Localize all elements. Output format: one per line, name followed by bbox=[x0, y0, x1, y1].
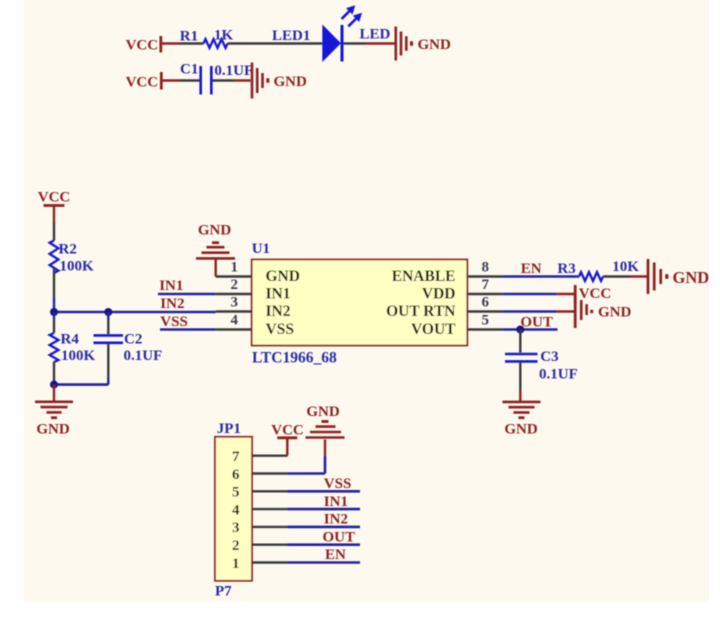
pin 1 (GND) stub bbox=[216, 275, 252, 277]
power port VCC (JP1) bbox=[271, 423, 304, 439]
svg-text:VCC: VCC bbox=[126, 75, 159, 91]
svg-text:U1: U1 bbox=[252, 241, 270, 257]
svg-text:GND: GND bbox=[306, 404, 340, 420]
svg-text:4: 4 bbox=[232, 502, 240, 518]
svg-text:R4: R4 bbox=[61, 332, 80, 348]
pin 8 (ENABLE) stub bbox=[467, 275, 502, 277]
svg-text:GND: GND bbox=[598, 305, 632, 321]
svg-text:2: 2 bbox=[231, 277, 239, 293]
junction (divider node) bbox=[50, 308, 58, 316]
resistor R2 bbox=[50, 241, 77, 274]
wire VCC to R1 bbox=[180, 42, 204, 44]
pin 7 stub (JP1) bbox=[252, 455, 288, 457]
svg-text:GND: GND bbox=[504, 422, 538, 438]
svg-text:VDD: VDD bbox=[422, 286, 456, 303]
svg-text:0.1UF: 0.1UF bbox=[214, 63, 253, 79]
svg-text:EN: EN bbox=[325, 547, 346, 563]
svg-text:VSS: VSS bbox=[266, 321, 294, 338]
wire R3 to GND bbox=[603, 275, 630, 277]
wire VSS (JP1) bbox=[288, 490, 361, 493]
svg-text:0.1UF: 0.1UF bbox=[539, 367, 578, 383]
svg-text:VCC: VCC bbox=[271, 423, 304, 439]
wire IN2 (JP1) bbox=[288, 526, 361, 529]
svg-text:VCC: VCC bbox=[579, 286, 612, 302]
power port VCC (net VCC, row1) bbox=[126, 36, 180, 54]
svg-text:GND: GND bbox=[673, 268, 710, 287]
wire VCC to C1 bbox=[180, 79, 200, 81]
svg-text:GND: GND bbox=[274, 74, 308, 90]
power ground GND (JP1, inverted) bbox=[306, 404, 345, 438]
svg-text:6: 6 bbox=[482, 295, 490, 311]
svg-text:ENABLE: ENABLE bbox=[392, 268, 456, 285]
svg-text:IN2: IN2 bbox=[160, 296, 184, 312]
pin 5 (VOUT) stub bbox=[467, 328, 502, 330]
power ground GND (pin8 row) bbox=[630, 259, 710, 294]
svg-text:VCC: VCC bbox=[38, 190, 71, 206]
svg-text:1K: 1K bbox=[214, 28, 234, 44]
svg-text:100K: 100K bbox=[61, 348, 96, 364]
svg-text:VCC: VCC bbox=[126, 38, 159, 54]
pin 6 stub (JP1) bbox=[252, 472, 288, 474]
junction (divider bottom node) bbox=[50, 381, 58, 389]
svg-text:OUT RTN: OUT RTN bbox=[386, 303, 455, 320]
pin 4 stub (JP1) bbox=[252, 508, 288, 510]
svg-text:EN: EN bbox=[521, 261, 542, 277]
svg-text:1: 1 bbox=[232, 556, 240, 572]
svg-text:7: 7 bbox=[232, 449, 240, 465]
power ground GND (row1) bbox=[366, 27, 452, 61]
svg-text:GND: GND bbox=[198, 223, 232, 239]
svg-text:IN1: IN1 bbox=[159, 278, 183, 294]
wire pin8 to R3 bbox=[503, 275, 579, 278]
svg-text:OUT: OUT bbox=[323, 529, 356, 545]
power ground GND (pin6 row) bbox=[575, 295, 631, 328]
wire pin7 to VCC bbox=[286, 439, 288, 456]
wire EN (JP1) bbox=[288, 561, 361, 564]
pin 3 (IN2) stub bbox=[216, 310, 252, 312]
power ground GND (divider) bbox=[35, 385, 73, 438]
power port VCC (pin7) bbox=[575, 285, 611, 304]
svg-text:4: 4 bbox=[231, 313, 239, 329]
LED LED1 bbox=[272, 5, 362, 62]
power ground GND (row2) bbox=[234, 63, 308, 99]
wire C2 bottom to node bbox=[53, 383, 109, 386]
svg-text:IN2: IN2 bbox=[324, 512, 348, 528]
svg-text:GND: GND bbox=[266, 268, 300, 285]
wire R2 to node bbox=[53, 269, 55, 312]
svg-text:LTC1966_68: LTC1966_68 bbox=[252, 350, 337, 367]
svg-text:7: 7 bbox=[482, 277, 490, 293]
svg-text:C1: C1 bbox=[180, 62, 198, 78]
svg-text:2: 2 bbox=[232, 538, 240, 554]
power port VCC (net VCC, row2) bbox=[126, 72, 180, 91]
power ground GND (U1 pin1, inverted) bbox=[196, 223, 235, 277]
svg-text:VSS: VSS bbox=[324, 476, 352, 492]
svg-text:R2: R2 bbox=[59, 242, 77, 258]
resistor R3 bbox=[557, 261, 603, 281]
svg-text:OUT: OUT bbox=[520, 315, 553, 331]
pin 4 (VSS) stub bbox=[216, 328, 252, 330]
svg-text:VSS: VSS bbox=[160, 314, 188, 330]
capacitor C2 bbox=[94, 312, 143, 385]
svg-text:R3: R3 bbox=[557, 261, 575, 277]
svg-text:10K: 10K bbox=[612, 259, 639, 275]
pin 1 stub (JP1) bbox=[252, 561, 288, 563]
wire IN1 (JP1) bbox=[288, 508, 361, 511]
wire LED1 to GND bbox=[344, 42, 366, 44]
wire R1 to LED1 bbox=[228, 42, 323, 44]
svg-text:3: 3 bbox=[231, 295, 239, 311]
svg-text:C2: C2 bbox=[124, 332, 142, 348]
pin 6 (OUT RTN) stub bbox=[467, 310, 502, 312]
pin 5 stub (JP1) bbox=[252, 490, 288, 492]
capacitor C1 bbox=[180, 62, 211, 95]
pin 3 stub (JP1) bbox=[252, 526, 288, 528]
wire OUT (JP1) bbox=[288, 543, 361, 546]
power port VCC (divider) bbox=[38, 190, 71, 222]
svg-text:8: 8 bbox=[482, 260, 490, 276]
capacitor C3 bbox=[505, 349, 559, 390]
svg-text:GND: GND bbox=[418, 37, 452, 53]
svg-text:1: 1 bbox=[231, 260, 239, 276]
wire VCC to R2 bbox=[53, 222, 55, 241]
svg-text:100K: 100K bbox=[60, 259, 95, 275]
wire C1 to GND bbox=[213, 79, 234, 81]
svg-text:IN1: IN1 bbox=[266, 286, 291, 303]
svg-text:5: 5 bbox=[482, 313, 490, 329]
wire IN1 bbox=[158, 293, 216, 296]
wire pin6 to GND bbox=[503, 310, 574, 313]
svg-text:3: 3 bbox=[232, 520, 240, 536]
svg-text:R1: R1 bbox=[180, 29, 198, 45]
svg-text:IN1: IN1 bbox=[324, 494, 348, 510]
op-amp U1 (LTC1966_68 body) bbox=[252, 260, 468, 346]
resistor R1 bbox=[180, 29, 228, 48]
svg-text:5: 5 bbox=[232, 485, 240, 501]
wire VSS bbox=[160, 328, 216, 331]
wire node to C3 bbox=[519, 330, 521, 353]
svg-text:GND: GND bbox=[36, 422, 70, 438]
connector JP1 body bbox=[215, 437, 252, 581]
wire pin6 to GND bbox=[288, 440, 326, 474]
svg-text:0.1UF: 0.1UF bbox=[124, 348, 163, 364]
junction (VOUT node) bbox=[516, 326, 524, 334]
pin 2 (IN1) stub bbox=[216, 293, 252, 295]
pin 2 stub (JP1) bbox=[252, 544, 288, 546]
junction (C2 top node) bbox=[104, 308, 112, 316]
wire pin7 to VCC bbox=[503, 293, 574, 296]
pin 7 (VDD) stub bbox=[467, 293, 502, 295]
wire node to IN2 pin bbox=[54, 311, 216, 314]
svg-text:P7: P7 bbox=[215, 584, 232, 600]
svg-text:IN2: IN2 bbox=[266, 303, 291, 320]
svg-text:C3: C3 bbox=[540, 349, 558, 365]
svg-text:VOUT: VOUT bbox=[411, 321, 456, 338]
svg-text:LED1: LED1 bbox=[272, 28, 310, 44]
wire pin5 (VOUT net) bbox=[503, 328, 558, 331]
svg-text:6: 6 bbox=[232, 467, 240, 483]
svg-text:JP1: JP1 bbox=[217, 421, 241, 437]
resistor R4 bbox=[50, 312, 80, 385]
power ground GND (C3) bbox=[503, 390, 541, 438]
svg-text:LED: LED bbox=[360, 27, 391, 43]
